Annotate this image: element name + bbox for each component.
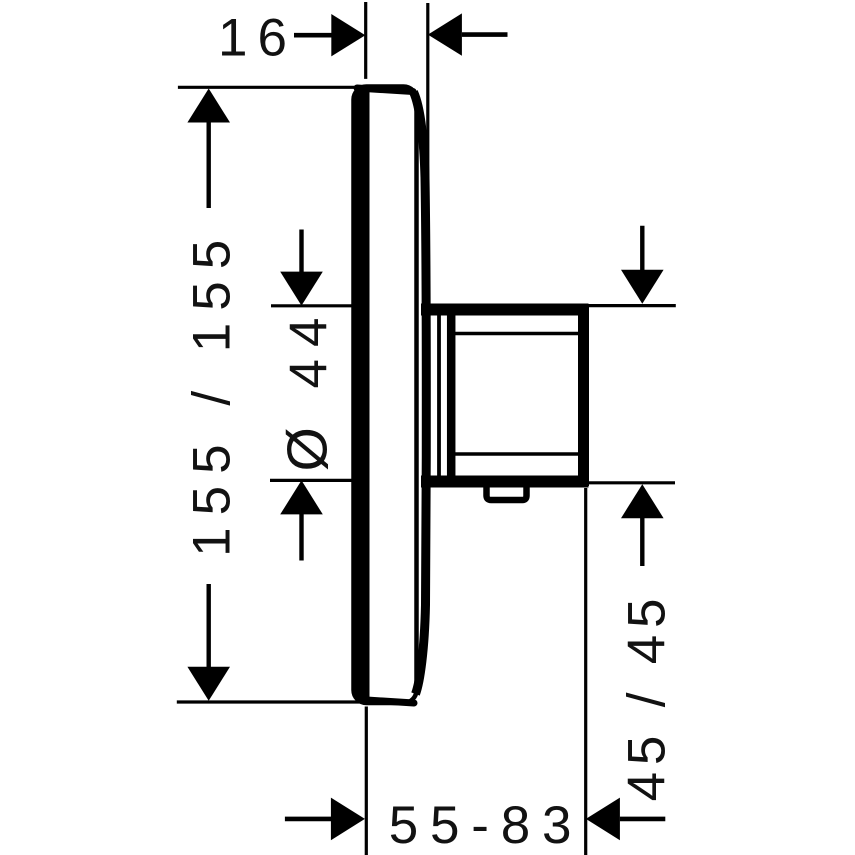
extension line d44 bottom [270,479,352,482]
extension line 155 bottom [177,700,361,703]
extension line 16 right [426,3,429,186]
dim 16 left arrow tail [294,33,332,38]
dim d44 bottom stem [299,514,303,561]
plate top edge [357,88,413,92]
extension line 16 left [364,2,367,79]
plate back bulge [414,92,427,694]
valve body left edge [447,305,456,486]
svg-text:16: 16 [218,9,297,68]
dim 55-83 left arrowhead [331,798,365,841]
dim 55-83 right arrowhead [586,798,620,841]
valve body top edge [421,304,589,316]
button tab [487,484,527,500]
dim 45 top stem [640,226,644,270]
plate front face (filled) [353,92,370,699]
dim 16 left arrowhead [331,14,365,56]
valve body right edge [578,305,589,486]
extension line 55-83 right [584,488,587,855]
dim 55-83 left tail [285,817,332,822]
dim d44 bottom arrowhead [280,480,323,514]
plate bottom edge [359,700,414,704]
svg-text:Ø 44: Ø 44 [276,305,340,471]
valve body inner line top [455,332,578,335]
svg-text:155 / 155: 155 / 155 [182,228,241,557]
dim 16 right arrowhead [428,13,462,55]
extension line 55-83 left [365,707,368,855]
dim 16 right arrow tail [462,32,508,37]
extension line 45 bottom [589,481,675,484]
extension line 155 top [178,86,361,89]
svg-text:45 / 45: 45 / 45 [618,592,677,802]
dim 155 bottom stem [206,584,210,667]
dim d44 top stem [299,230,303,273]
dim 155 bottom arrowhead [187,667,230,701]
dim d44 top arrowhead [280,272,323,306]
valve body inner line bottom [455,452,578,455]
extension line 45 top [585,304,676,307]
dim 55-83 right tail [620,817,665,822]
dim 155 top stem [206,122,210,208]
dim 45 bottom arrowhead [621,484,664,518]
dim 45 top arrowhead [621,270,664,304]
svg-text:55-83: 55-83 [389,796,584,855]
dim 45 bottom stem [640,518,644,566]
valve body sleeve line [437,306,441,482]
extension line d44 top [271,304,358,307]
valve body bottom edge [421,476,589,488]
escutcheon plate outline (side view) [354,87,417,704]
dim 155 top arrowhead [187,89,230,123]
